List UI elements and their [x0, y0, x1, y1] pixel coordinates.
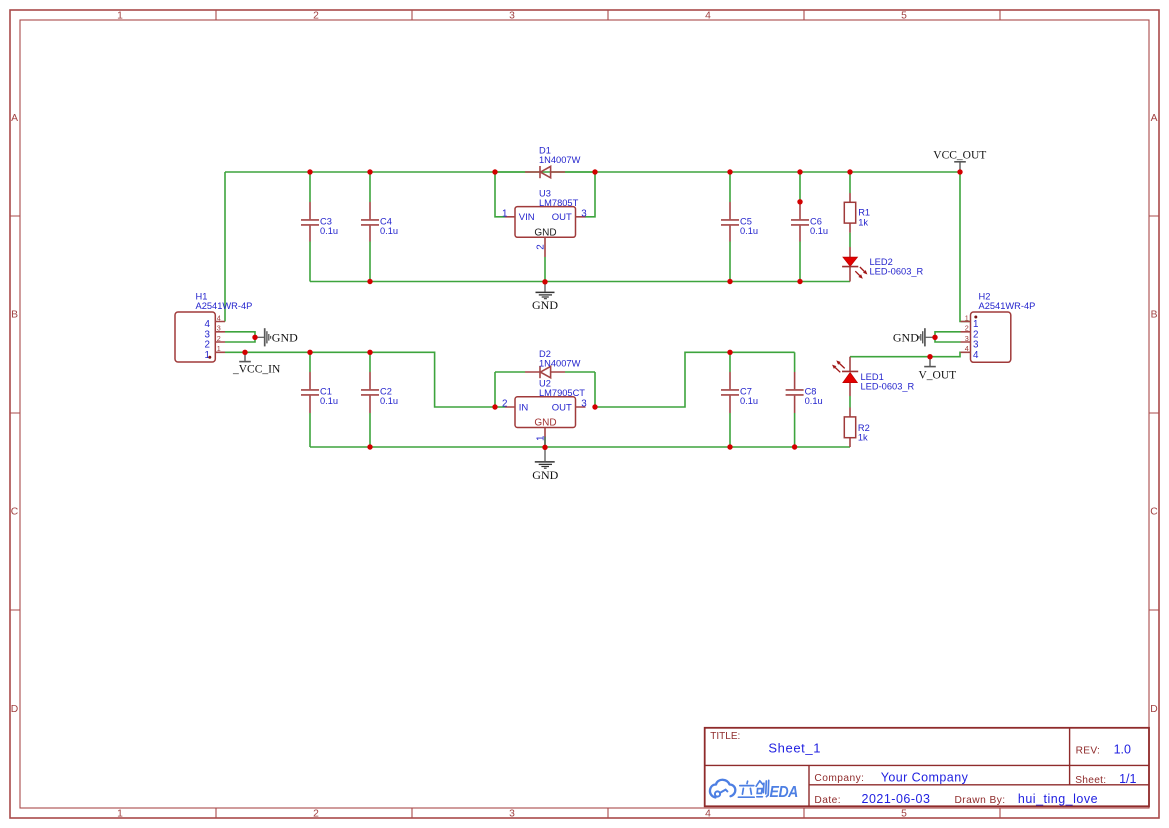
- wire U3 GND pin to bottom rail: [544, 257, 546, 282]
- junction node D1 left: [492, 169, 497, 174]
- svg-text:GND: GND: [893, 330, 919, 344]
- wire D1 right lead connection: [565, 171, 595, 173]
- diode D2: [525, 349, 581, 378]
- wire U2 GND pin to bottom rail: [544, 437, 546, 447]
- svg-text:GND: GND: [534, 227, 556, 238]
- capacitor C4: [361, 202, 398, 242]
- wire from top rail down to H1 pin4: [224, 172, 226, 322]
- svg-text:D2: D2: [539, 349, 551, 359]
- svg-text:1: 1: [502, 208, 507, 219]
- svg-text:_VCC_IN: _VCC_IN: [232, 364, 281, 376]
- wire D2 right connection: [565, 372, 595, 407]
- junction node U2 GND: [542, 445, 547, 450]
- svg-text:2021-06-03: 2021-06-03: [862, 792, 931, 806]
- junction node U2 IN: [492, 404, 497, 409]
- svg-text:1: 1: [205, 350, 210, 361]
- svg-text:0.1u: 0.1u: [320, 396, 338, 406]
- svg-text:V_OUT: V_OUT: [919, 369, 957, 381]
- svg-text:4: 4: [705, 11, 711, 22]
- svg-text:Company:: Company:: [814, 773, 864, 784]
- svg-text:1k: 1k: [858, 218, 868, 228]
- svg-text:1.0: 1.0: [1114, 743, 1131, 757]
- wire C6 bottom lead: [799, 242, 801, 282]
- junction node C6 pin: [797, 199, 802, 204]
- wire C7 top lead: [729, 352, 731, 372]
- wire top rail VCC: [225, 171, 960, 173]
- svg-text:Sheet_1: Sheet_1: [768, 740, 821, 755]
- junction node C2 top: [367, 350, 372, 355]
- wire C8 bottom lead: [794, 413, 796, 447]
- svg-text:1k: 1k: [858, 432, 868, 442]
- svg-text:H2: H2: [979, 292, 991, 302]
- capacitor C8: [786, 372, 823, 413]
- wire C5 top lead: [729, 172, 731, 202]
- svg-text:3: 3: [581, 208, 587, 219]
- svg-text:2: 2: [965, 324, 969, 333]
- svg-text:VIN: VIN: [519, 212, 535, 223]
- svg-text:Your Company: Your Company: [881, 770, 969, 784]
- svg-text:OUT: OUT: [552, 212, 572, 223]
- net flag _VCC_IN: [232, 352, 281, 375]
- capacitor C2: [361, 372, 398, 413]
- junction node C7 bottom: [727, 444, 732, 449]
- svg-text:U3: U3: [539, 188, 551, 198]
- wire D1 left lead connection: [495, 171, 525, 173]
- svg-text:VCC_OUT: VCC_OUT: [933, 149, 986, 161]
- svg-text:3: 3: [965, 334, 969, 343]
- diode D1: [525, 146, 581, 179]
- svg-text:0.1u: 0.1u: [380, 226, 398, 236]
- junction node C5 bottom: [727, 279, 732, 284]
- svg-text:C5: C5: [740, 217, 752, 227]
- svg-text:C6: C6: [810, 217, 822, 227]
- svg-text:A2541WR-4P: A2541WR-4P: [979, 301, 1036, 311]
- svg-text:1: 1: [965, 313, 969, 322]
- svg-text:C4: C4: [380, 217, 392, 227]
- capacitor C7: [721, 372, 758, 413]
- svg-text:0.1u: 0.1u: [740, 396, 758, 406]
- wire H1 pin1 rail VCC_IN: [225, 352, 505, 407]
- wire C3 top lead: [309, 172, 311, 202]
- junction node D1 right: [592, 169, 597, 174]
- svg-text:4: 4: [965, 344, 969, 353]
- junction node VCC_IN flag: [242, 350, 247, 355]
- svg-text:Date:: Date:: [814, 795, 841, 806]
- junction node V_OUT flag: [927, 354, 932, 359]
- svg-text:REV:: REV:: [1076, 746, 1101, 757]
- svg-text:C: C: [1150, 507, 1158, 518]
- svg-text:Drawn By:: Drawn By:: [955, 795, 1006, 806]
- wire U3 OUT up to top rail: [585, 172, 595, 217]
- svg-text:0.1u: 0.1u: [740, 226, 758, 236]
- svg-text:3: 3: [509, 809, 515, 820]
- wire H2 pin2 pin3 to GND: [935, 332, 961, 342]
- svg-text:R1: R1: [858, 208, 870, 218]
- svg-text:A2541WR-4P: A2541WR-4P: [196, 301, 253, 311]
- svg-text:B: B: [11, 310, 18, 321]
- svg-text:3: 3: [509, 11, 515, 22]
- svg-text:GND: GND: [534, 418, 556, 429]
- svg-text:0.1u: 0.1u: [810, 226, 828, 236]
- svg-text:GND: GND: [532, 298, 558, 312]
- svg-text:hui_ting_love: hui_ting_love: [1018, 792, 1098, 806]
- LED LED1: [832, 357, 915, 396]
- wire C5 bottom lead: [729, 242, 731, 282]
- junction node C1 top: [307, 350, 312, 355]
- svg-text:R2: R2: [858, 423, 870, 433]
- resistor R2: [844, 408, 869, 448]
- wire C2 bottom lead: [369, 413, 371, 447]
- junction node C4 top: [367, 169, 372, 174]
- svg-text:D: D: [1150, 704, 1157, 715]
- svg-text:Sheet:: Sheet:: [1075, 775, 1106, 786]
- power flag GND at H2: [893, 328, 935, 346]
- wire H1 pin3 pin2 to GND: [225, 332, 255, 342]
- svg-text:C7: C7: [740, 386, 752, 396]
- svg-text:2: 2: [536, 244, 547, 249]
- title block: [705, 728, 1149, 807]
- net flag V_OUT: [919, 357, 957, 382]
- capacitor C6: [791, 202, 828, 242]
- svg-text:1N4007W: 1N4007W: [539, 155, 581, 165]
- capacitor C1: [301, 372, 338, 413]
- power flag GND at U3: [532, 282, 558, 312]
- svg-text:B: B: [1151, 310, 1158, 321]
- power flag GND at U2: [532, 437, 558, 482]
- svg-text:0.1u: 0.1u: [805, 396, 823, 406]
- svg-text:C1: C1: [320, 386, 332, 396]
- svg-text:5: 5: [901, 11, 907, 22]
- svg-text:C3: C3: [320, 217, 332, 227]
- svg-text:LED1: LED1: [861, 372, 884, 382]
- svg-text:1: 1: [117, 11, 123, 22]
- wire C3 bottom lead: [309, 242, 311, 282]
- junction node C6 bottom: [797, 279, 802, 284]
- resistor R1: [844, 193, 870, 233]
- svg-text:U2: U2: [539, 379, 551, 389]
- junction node C5 top: [727, 169, 732, 174]
- svg-text:4: 4: [973, 350, 979, 361]
- svg-text:TITLE:: TITLE:: [710, 731, 740, 742]
- svg-text:1/1: 1/1: [1119, 772, 1136, 786]
- wire bottom rail of lower circuit: [310, 446, 850, 448]
- svg-text:EDA: EDA: [770, 783, 798, 801]
- wire C7 bottom lead: [729, 413, 731, 447]
- header H2 A2541WR-4P: [961, 292, 1036, 363]
- svg-text:3: 3: [581, 399, 587, 410]
- svg-text:H1: H1: [196, 292, 208, 302]
- svg-text:IN: IN: [519, 402, 529, 413]
- wire C1 top lead: [309, 352, 311, 372]
- svg-text:C: C: [11, 507, 19, 518]
- junction node C8 bottom: [792, 444, 797, 449]
- svg-text:A: A: [1151, 113, 1158, 124]
- svg-text:4: 4: [217, 313, 221, 322]
- wire D1 anode to U3 VIN: [495, 172, 505, 217]
- svg-text:LED-0603_R: LED-0603_R: [861, 382, 915, 392]
- svg-text:2: 2: [313, 809, 319, 820]
- svg-text:C2: C2: [380, 386, 392, 396]
- LCEDA logo: [710, 780, 798, 801]
- svg-text:4: 4: [705, 809, 711, 820]
- svg-text:2: 2: [502, 399, 507, 410]
- svg-text:GND: GND: [272, 330, 298, 344]
- svg-text:LM7905CT: LM7905CT: [539, 388, 585, 398]
- junction node C4 bottom: [367, 279, 372, 284]
- wire bottom rail of upper circuit: [310, 281, 850, 283]
- junction node H1 GND: [252, 335, 257, 340]
- wire D2 left connection: [495, 372, 525, 407]
- wire C8 top lead: [794, 352, 796, 372]
- wire U2 OUT to C7 C8 rail: [595, 352, 795, 407]
- wire C4 bottom lead: [369, 242, 371, 282]
- svg-text:1N4007W: 1N4007W: [539, 358, 581, 368]
- svg-text:LED-0603_R: LED-0603_R: [870, 267, 924, 277]
- power flag GND at H1: [255, 328, 298, 346]
- svg-text:GND: GND: [532, 468, 558, 482]
- wire LED1 to R2: [849, 396, 851, 408]
- junction node C7 top: [727, 350, 732, 355]
- svg-text:2: 2: [313, 11, 319, 22]
- capacitor C5: [721, 202, 758, 242]
- svg-text:OUT: OUT: [552, 402, 572, 413]
- wire R1 top lead: [849, 172, 851, 193]
- svg-text:0.1u: 0.1u: [320, 226, 338, 236]
- svg-text:2: 2: [217, 334, 221, 343]
- junction node VCC_OUT: [957, 169, 962, 174]
- wire C2 top lead: [369, 352, 371, 372]
- wire H2 pin4 to V_OUT rail: [850, 352, 961, 356]
- svg-text:LED2: LED2: [870, 257, 893, 267]
- capacitor C3: [301, 202, 338, 242]
- junction node H2 GND: [932, 335, 937, 340]
- svg-text:D1: D1: [539, 146, 551, 156]
- svg-text:1: 1: [217, 344, 221, 353]
- wire VCC_OUT down to H2 pin1: [960, 172, 971, 322]
- junction node C3 top: [307, 169, 312, 174]
- net flag VCC_OUT: [933, 149, 986, 172]
- regulator U3 LM7805T: [502, 188, 587, 257]
- junction node U3 GND: [542, 279, 547, 284]
- svg-text:5: 5: [901, 809, 907, 820]
- wire C1 bottom lead: [309, 413, 311, 447]
- svg-text:3: 3: [217, 324, 221, 333]
- wire C4 top lead: [369, 172, 371, 202]
- svg-text:LM7805T: LM7805T: [539, 198, 579, 208]
- junction node C2 bottom: [367, 444, 372, 449]
- svg-text:0.1u: 0.1u: [380, 396, 398, 406]
- svg-text:1: 1: [117, 809, 123, 820]
- regulator U2 LM7905CT: [502, 379, 587, 442]
- junction node C6 top: [797, 169, 802, 174]
- LED LED2: [842, 247, 923, 282]
- svg-text:D: D: [11, 704, 18, 715]
- junction node R1 top: [847, 169, 852, 174]
- header H1 A2541WR-4P: [175, 292, 252, 362]
- svg-text:C8: C8: [805, 386, 817, 396]
- wire C6 top lead: [799, 172, 801, 202]
- junction node U2 OUT: [592, 404, 597, 409]
- wire R1 to LED2: [849, 233, 851, 247]
- svg-text:A: A: [11, 113, 18, 124]
